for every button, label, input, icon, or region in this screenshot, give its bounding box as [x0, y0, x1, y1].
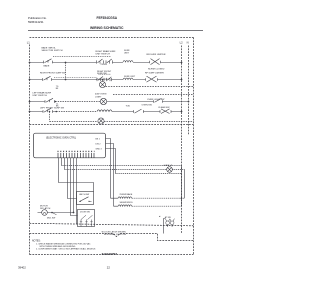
svg-text:FEF354CGSA: FEF354CGSA	[97, 16, 118, 20]
resistor: bake element	[111, 197, 132, 198]
switch S1 (rung1 left)	[44, 59, 53, 64]
svg-text:IN NORMAL POSITION: IN NORMAL POSITION	[104, 233, 126, 236]
svg-text:RF SURF LIMITER: RF SURF LIMITER	[145, 73, 164, 75]
schematic frame right (dashed)	[193, 38, 195, 255]
wire EOC pin GRD	[106, 149, 116, 174]
svg-text:L1: L1	[27, 40, 30, 44]
wire right bus down (L2 side)	[181, 166, 183, 207]
wire harness drop 7	[76, 158, 78, 225]
svg-text:LEFT FRONT SURF SW: LEFT FRONT SURF SW	[40, 108, 65, 110]
svg-text:DSI 2: DSI 2	[96, 144, 102, 146]
svg-text:UNIT SWITCH: UNIT SWITCH	[33, 95, 48, 97]
EOC pin labels	[96, 139, 103, 151]
node rung2-L1 junction	[29, 79, 31, 81]
svg-text:DOOR SW: DOOR SW	[80, 212, 90, 214]
node bake return junction	[181, 197, 183, 199]
node rung4-L2 junction	[181, 111, 183, 113]
tiny label under rung3	[56, 103, 59, 107]
svg-text:SURF UNIT: SURF UNIT	[124, 76, 136, 78]
wire right bus 2 down	[184, 170, 186, 199]
svg-text:RIGHT REAR SURF: RIGHT REAR SURF	[96, 50, 117, 53]
limit switch TS2	[146, 76, 158, 82]
node rung1-L1 junction	[29, 62, 31, 64]
svg-text:SURF SW: SURF SW	[97, 73, 107, 75]
EOC terminal numbers	[58, 150, 95, 152]
wire clock lamp branch horizontal (dashed)	[50, 121, 98, 123]
node MDL junction	[73, 212, 75, 214]
switch MDL SW blade	[52, 213, 57, 215]
svg-text:L2: L2	[180, 40, 183, 44]
wire AT connections	[164, 219, 166, 234]
svg-text:NOTES:: NOTES:	[32, 241, 41, 243]
wire harness drop 4 (to latch switch box)	[68, 158, 77, 199]
svg-text:OVEN SW: OVEN SW	[142, 104, 153, 106]
surface unit switch SW2	[97, 77, 112, 82]
surface element LF (coil rung4)	[97, 110, 112, 112]
node MDL switch junction	[51, 212, 53, 214]
node rung2-L2 junction	[181, 79, 183, 81]
svg-text:RR SURF LIMITER: RR SURF LIMITER	[147, 54, 166, 56]
rung 4 wire	[30, 111, 182, 113]
node clock lamp tap junction	[49, 111, 51, 113]
svg-text:GRD 3: GRD 3	[96, 149, 103, 151]
door switch S4	[154, 98, 163, 102]
wire harness dotted line A	[62, 165, 182, 167]
svg-text:CLEAN SW: CLEAN SW	[158, 106, 170, 109]
svg-text:LIGHT: LIGHT	[95, 96, 102, 98]
svg-text:3400W BROIL: 3400W BROIL	[120, 202, 134, 204]
surface element RR (coil)	[123, 61, 133, 63]
svg-text:N: N	[187, 40, 189, 44]
svg-text:◄: ◄	[159, 215, 161, 218]
wire harness drop 3	[64, 158, 66, 170]
wire bake element return (dotted)	[132, 197, 185, 199]
switch S2 (rung2 left)	[43, 76, 52, 81]
svg-text:2350W: 2350W	[101, 64, 107, 66]
lamp L3 (clock lamp)	[98, 118, 104, 124]
wire harness drop 6 (to MDL)	[73, 158, 75, 213]
svg-text:LEFT REAR SURF: LEFT REAR SURF	[33, 92, 52, 95]
wire harness drop 5 (to door switch box)	[71, 158, 78, 216]
surface element RR label	[124, 50, 130, 54]
notes block	[32, 241, 96, 251]
latch switch contacts	[79, 197, 92, 202]
surface unit switch SW1 label	[96, 50, 117, 56]
door switch contacts	[81, 215, 93, 226]
switch S3 label	[33, 92, 52, 98]
svg-text:22: 22	[107, 265, 111, 269]
switch S5 (rung4 left)	[43, 108, 53, 113]
surface unit switch SW1	[97, 59, 113, 64]
node rung3-N junction	[188, 101, 190, 103]
svg-text:TOD: TOD	[126, 105, 131, 107]
svg-text:UNIT SWITCH: UNIT SWITCH	[96, 54, 111, 56]
surface element RF (coil)	[123, 78, 133, 80]
node rung3-L1 junction	[29, 101, 31, 103]
thermal switch AT (two circles)	[165, 219, 174, 227]
wire EOC pin DSI to elements	[106, 144, 114, 207]
wire broil element return (dotted)	[132, 205, 182, 207]
tiny label TR	[56, 86, 59, 90]
svg-text:NORM CLOSED: NORM CLOSED	[148, 69, 165, 71]
svg-text:BK: BK	[56, 88, 59, 90]
limit switch TS1 labels	[147, 54, 166, 71]
wire clock lamp to L2 (dashed)	[104, 121, 193, 123]
wire EOC pin BK to elements	[106, 139, 111, 199]
svg-text:SELECTOR SWITCH: SELECTOR SWITCH	[42, 50, 63, 52]
switch box: latch switch	[77, 192, 94, 205]
node rung1-L2 junction	[181, 62, 183, 64]
motor MDL label	[40, 206, 51, 210]
op-amp U1: electronic oven control box	[34, 133, 106, 158]
svg-text:LATCH SW: LATCH SW	[79, 193, 89, 196]
header rule	[28, 30, 203, 32]
wire L1 rail (dashed vertical)	[29, 45, 31, 255]
node rung4 dashed transition junction	[56, 111, 58, 113]
node rung3 dashed transition junction	[55, 101, 57, 103]
wire parallel lamp dashed	[113, 94, 194, 96]
oven light L1 label	[96, 79, 110, 81]
wire MDL line	[38, 212, 74, 214]
svg-text:◄ DOOR LATCH SHOWN: ◄ DOOR LATCH SHOWN	[101, 231, 126, 234]
svg-text:MDL SW: MDL SW	[47, 217, 55, 219]
schematic frame top (dashed)	[30, 37, 194, 39]
motor MDL (door latch motor)	[42, 210, 48, 216]
lamp L1 (oven light)	[99, 82, 105, 88]
rung 2 wire	[30, 79, 182, 81]
wire L2 rail (dashed vertical)	[181, 46, 183, 234]
wire harness drop 1 (to latch box top)	[59, 158, 94, 192]
lamp OP (oven light rear)	[167, 167, 173, 173]
node rung4-L1 junction	[29, 111, 31, 113]
switch box: door switch	[78, 210, 95, 227]
svg-text:2585W BAKE: 2585W BAKE	[120, 193, 133, 196]
svg-text:BK 1: BK 1	[96, 139, 101, 141]
switch S7 (rung4 right)	[160, 109, 171, 114]
svg-text:(ELECTRONIC OVEN CTRL): (ELECTRONIC OVEN CTRL)	[46, 137, 76, 139]
switch S6 (rung4 mid)	[134, 109, 144, 113]
svg-text:WIRING SCHEMATIC: WIRING SCHEMATIC	[90, 26, 124, 30]
door latch note text	[101, 231, 126, 237]
svg-text:RIGHT FRONT SURF SW: RIGHT FRONT SURF SW	[40, 73, 66, 75]
limit switch TS1 (normally closed)	[150, 59, 161, 65]
resistor: broil element	[114, 205, 132, 206]
oven boundary dashed lower with notch	[30, 234, 194, 241]
svg-text:BAKE / BROIL: BAKE / BROIL	[42, 47, 57, 50]
node lamp1 tap junction	[102, 79, 104, 81]
wire pin GRD dotted to L2	[116, 173, 182, 175]
svg-text:5995314231: 5995314231	[28, 20, 44, 24]
EOC terminal ticks	[58, 153, 94, 158]
svg-text:2. COMPONENTS MAY / OR DO NOT: 2. COMPONENTS MAY / OR DO NOT APPEAR ON …	[36, 247, 96, 250]
publication number text	[28, 16, 47, 24]
wire harness drop 2	[61, 158, 63, 166]
svg-text:39402: 39402	[18, 265, 26, 269]
switch S1 label	[42, 47, 63, 68]
wire lamp1 drop	[102, 80, 104, 82]
rung 3 wire	[30, 101, 189, 103]
lamp L2 (40W oven light)	[100, 98, 106, 104]
svg-text:UNIT: UNIT	[124, 52, 130, 54]
wire clock lamp branch (dashed)	[49, 112, 51, 122]
oven boundary dashed upper	[30, 223, 194, 226]
schematic frame bottom (dashed)	[30, 254, 194, 256]
svg-text:BAKE: BAKE	[44, 65, 50, 68]
wire rung1 to rung2 branch (dashed)	[65, 63, 67, 80]
svg-text:316248757: 316248757	[102, 252, 118, 256]
oven lamp L2 label	[95, 94, 107, 99]
wire N rail (dashed vertical)	[188, 46, 190, 136]
wire lamp1 to N (dashed)	[106, 86, 194, 88]
console boundary dashed	[30, 124, 194, 126]
switch S3 (rung3 left)	[45, 98, 55, 103]
rung 1 wire	[30, 62, 182, 64]
wire harness dotted line B	[65, 169, 185, 171]
